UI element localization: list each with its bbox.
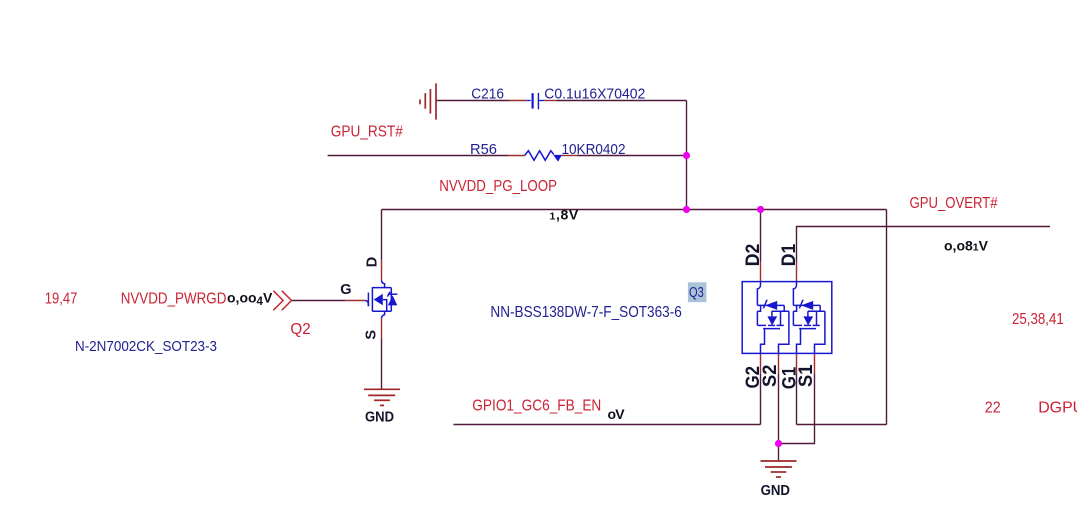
svg-text:R56: R56	[470, 141, 497, 158]
svg-text:oV: oV	[608, 406, 626, 422]
svg-text:NN-BSS138DW-7-F_SOT363-6: NN-BSS138DW-7-F_SOT363-6	[490, 304, 681, 321]
svg-text:GPU_RST#: GPU_RST#	[331, 123, 403, 140]
svg-text:NVVDD_PG_LOOP: NVVDD_PG_LOOP	[439, 178, 557, 195]
svg-text:D1: D1	[778, 244, 800, 267]
svg-text:D2: D2	[742, 244, 764, 267]
svg-text:C216: C216	[471, 85, 504, 102]
svg-text:GND: GND	[365, 410, 394, 426]
svg-text:NVVDD_PWRGD: NVVDD_PWRGD	[121, 291, 227, 308]
svg-text:D: D	[365, 257, 381, 267]
svg-text:22: 22	[985, 400, 1001, 417]
svg-text:o,oo4V: o,oo4V	[227, 289, 273, 308]
svg-text:Q2: Q2	[290, 321, 310, 338]
svg-text:GND: GND	[761, 483, 790, 499]
svg-text:S: S	[364, 330, 380, 340]
svg-text:19,47: 19,47	[45, 291, 78, 308]
svg-text:S1: S1	[795, 364, 817, 387]
svg-text:C0.1u16X70402: C0.1u16X70402	[544, 85, 645, 102]
svg-text:N-2N7002CK_SOT23-3: N-2N7002CK_SOT23-3	[75, 338, 217, 355]
svg-text:Q3: Q3	[689, 284, 704, 301]
svg-text:GPIO1_GC6_FB_EN: GPIO1_GC6_FB_EN	[472, 397, 601, 414]
svg-text:GPU_OVERT#: GPU_OVERT#	[910, 195, 998, 212]
svg-text:o,o81V: o,o81V	[944, 237, 989, 253]
svg-text:25,38,41: 25,38,41	[1012, 311, 1064, 328]
svg-text:DGPU: DGPU	[1038, 400, 1077, 417]
svg-text:G: G	[340, 282, 351, 298]
svg-text:10KR0402: 10KR0402	[562, 141, 626, 158]
